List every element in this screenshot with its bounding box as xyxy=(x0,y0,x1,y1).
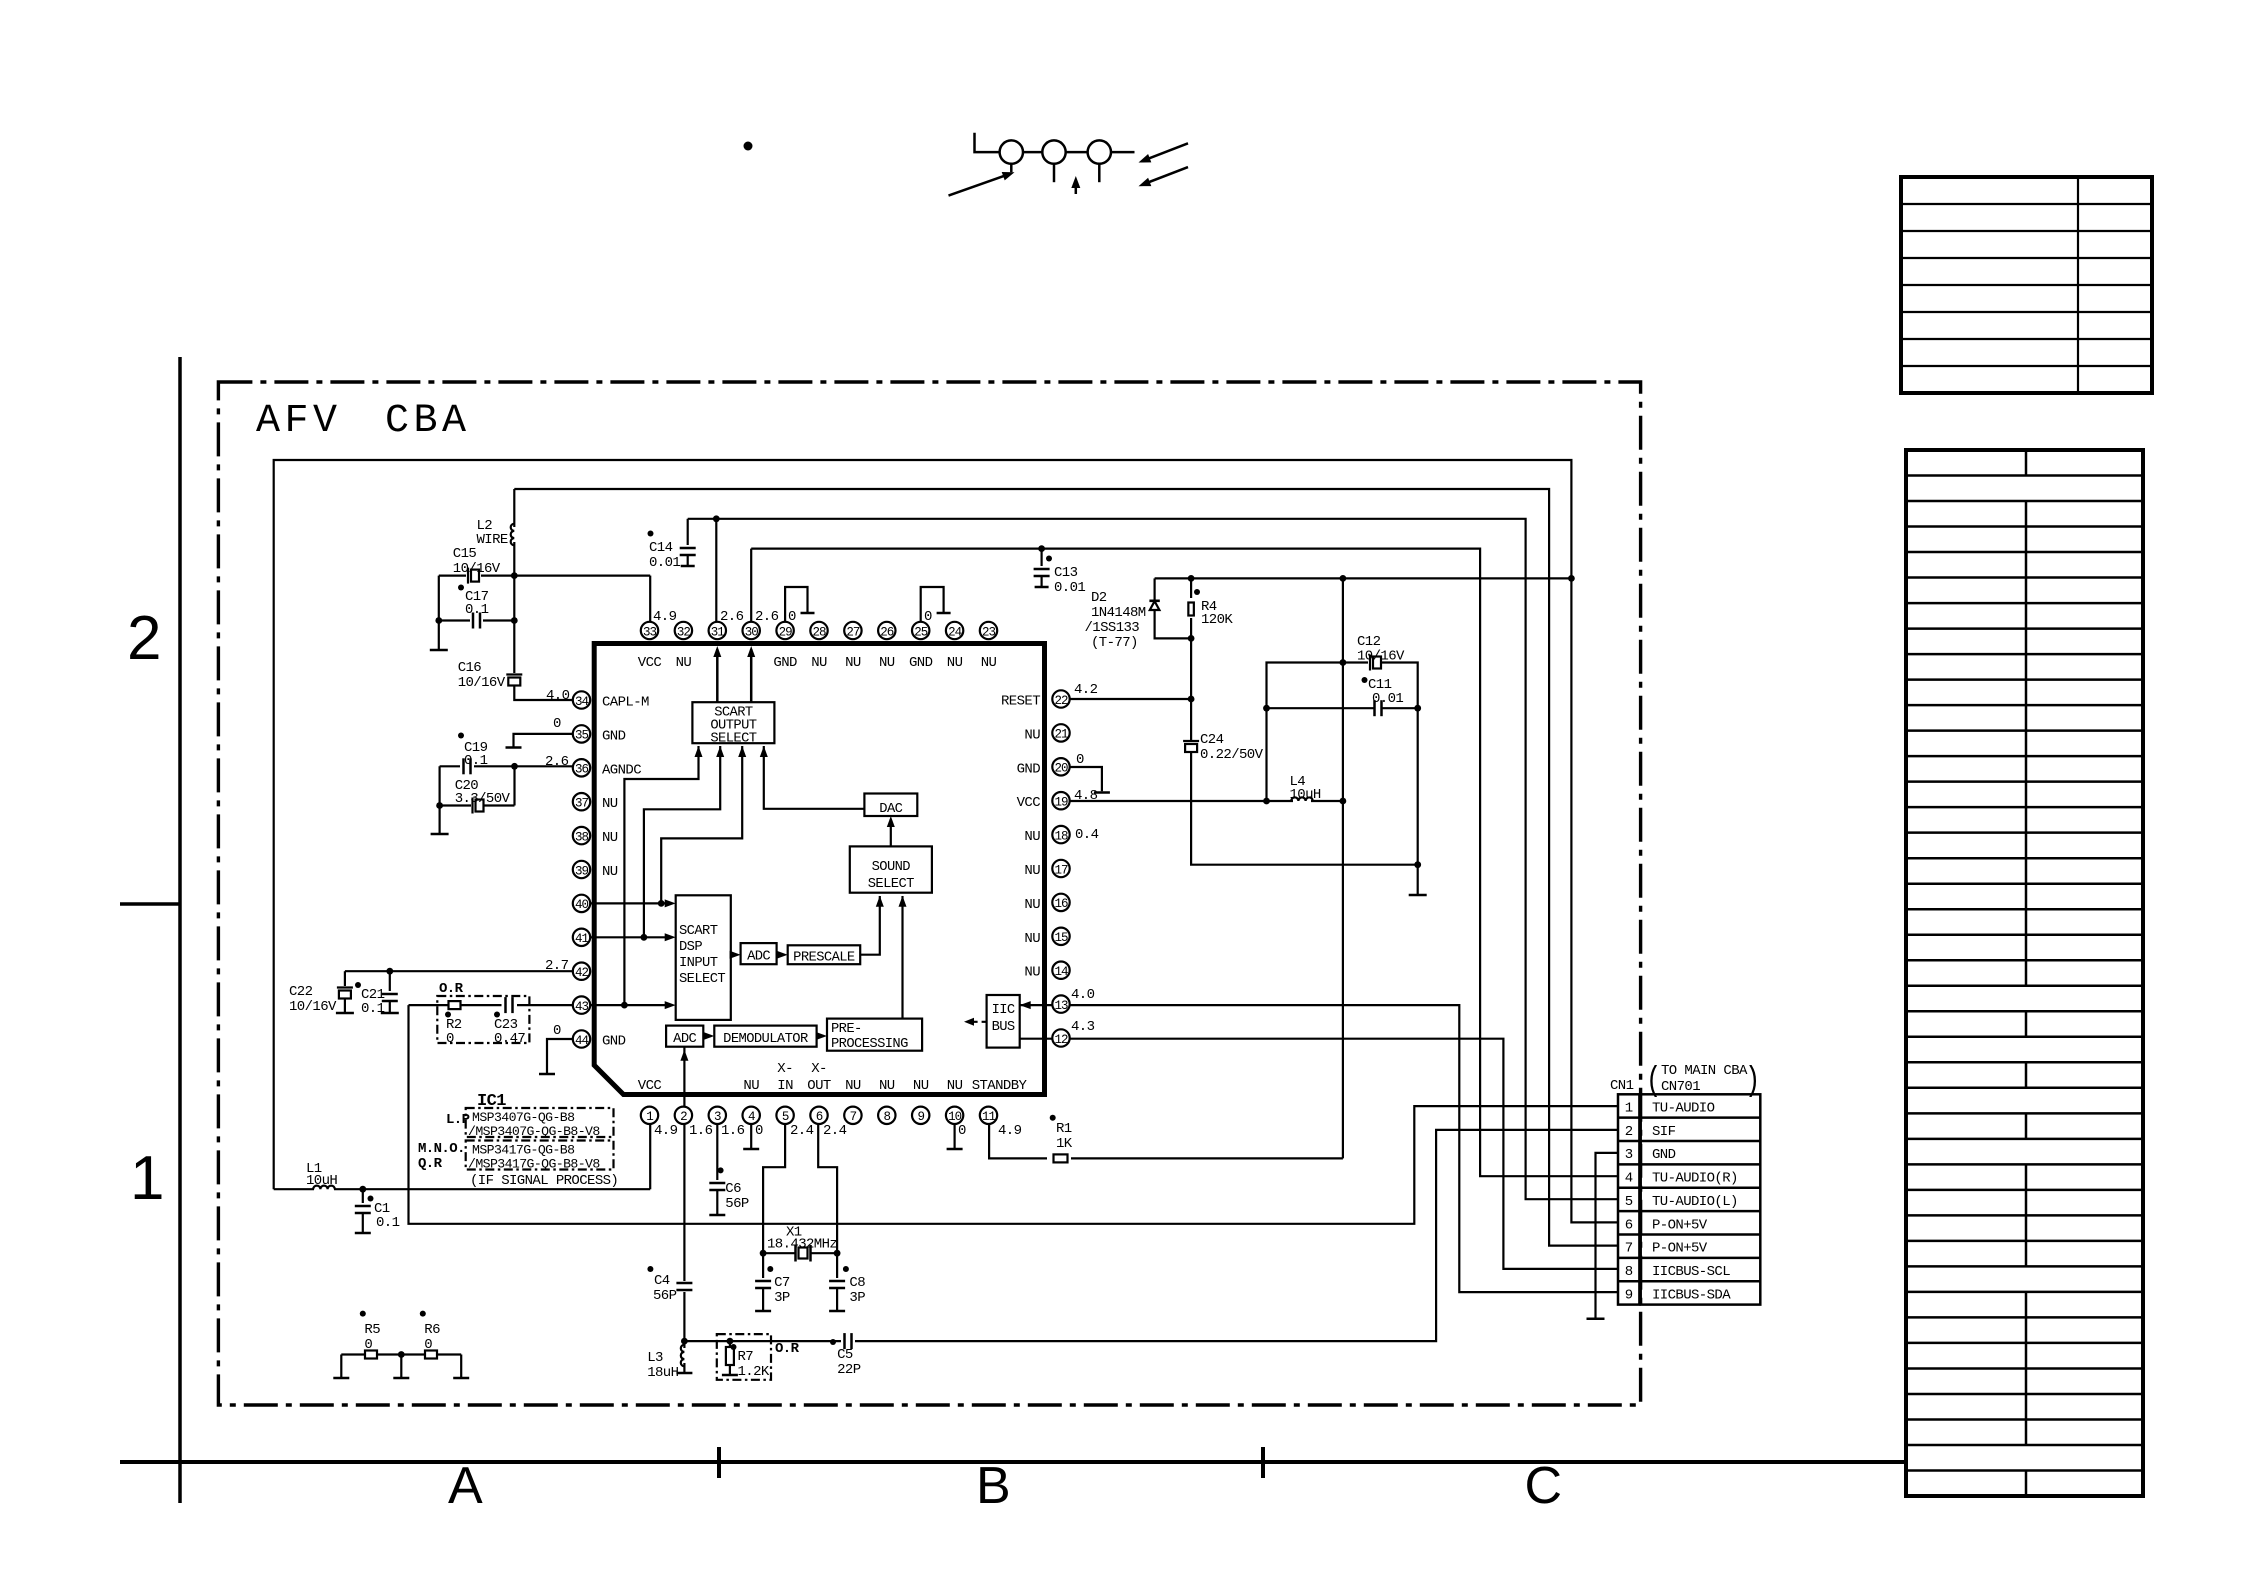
wire SOUND SELECT to DAC arrow xyxy=(890,819,892,846)
node L3 top xyxy=(681,1338,688,1345)
inductor L3 18uH xyxy=(683,1341,685,1348)
pin 30 xyxy=(743,622,760,639)
svg-text:3: 3 xyxy=(1625,1147,1633,1163)
svg-text:31: 31 xyxy=(711,625,725,639)
pin 37 xyxy=(573,793,590,810)
svg-text:AGNDC: AGNDC xyxy=(602,762,641,778)
svg-text:0: 0 xyxy=(553,716,561,732)
svg-text:10/16V: 10/16V xyxy=(458,675,506,691)
svg-text:0: 0 xyxy=(553,1023,561,1039)
capacitor C7 3P xyxy=(762,1253,764,1278)
variant dash-dot box R7 xyxy=(717,1334,771,1380)
svg-text:X-: X- xyxy=(811,1061,827,1077)
block SOUND SELECT xyxy=(850,846,932,892)
wire pin41 to SCART DSP xyxy=(590,936,672,938)
pin 8 xyxy=(878,1107,895,1124)
svg-text:C15: C15 xyxy=(453,546,477,562)
svg-text:AFV: AFV xyxy=(256,399,342,444)
resistor R5 0 xyxy=(341,1353,365,1355)
svg-text:30: 30 xyxy=(745,625,759,639)
svg-text:1: 1 xyxy=(1625,1100,1633,1116)
svg-text:4.9: 4.9 xyxy=(654,1123,678,1139)
diode D2 1N4148M xyxy=(1153,578,1155,600)
frame zone tick left xyxy=(120,902,180,906)
svg-text:1: 1 xyxy=(646,1110,653,1124)
wire pin30 to SCART OUTPUT SELECT xyxy=(750,649,753,702)
svg-text:1.6: 1.6 xyxy=(689,1123,713,1139)
svg-text:0: 0 xyxy=(755,1123,763,1139)
svg-text:1: 1 xyxy=(130,1144,164,1213)
node C17 left xyxy=(435,617,442,624)
capacitor C22 10/16V xyxy=(344,971,346,986)
svg-text:39: 39 xyxy=(575,864,589,878)
legend ne arrow xyxy=(949,174,1011,196)
svg-text:42: 42 xyxy=(575,966,589,980)
svg-text:NU: NU xyxy=(845,655,861,671)
pin 26 xyxy=(878,622,895,639)
svg-text:41: 41 xyxy=(575,932,589,946)
svg-text:4.3: 4.3 xyxy=(1071,1019,1095,1035)
svg-text:NU: NU xyxy=(1024,727,1040,743)
svg-text:0: 0 xyxy=(958,1123,966,1139)
pin 27 xyxy=(844,622,861,639)
wire pin42 net xyxy=(345,970,573,972)
legend left arrow 1 xyxy=(1143,143,1188,160)
capacitor C4 56P xyxy=(676,1282,692,1285)
pin 18 xyxy=(1052,826,1069,843)
pin 25 xyxy=(912,622,929,639)
svg-text:10uH: 10uH xyxy=(306,1173,337,1189)
svg-text:37: 37 xyxy=(575,797,589,811)
svg-text:NU: NU xyxy=(1024,931,1040,947)
svg-text:R5: R5 xyxy=(364,1322,380,1338)
svg-text:A: A xyxy=(448,1457,483,1515)
inductor L2 WIRE xyxy=(513,489,515,527)
svg-text:C4: C4 xyxy=(654,1273,670,1289)
svg-text:7: 7 xyxy=(850,1110,857,1124)
svg-text:SCART: SCART xyxy=(679,924,718,939)
wire pin4 GND stub xyxy=(750,1124,752,1148)
svg-text:D2: D2 xyxy=(1091,590,1107,606)
svg-text:2: 2 xyxy=(127,604,161,673)
svg-text:1N4148M: 1N4148M xyxy=(1091,605,1146,621)
arrow ADC to DEMODULATOR xyxy=(703,1035,711,1037)
wire C12 loop xyxy=(1267,663,1369,802)
wire pin40 net to SCART OUTPUT SELECT xyxy=(661,746,742,903)
wire pin2 vertical through ADC xyxy=(683,1047,685,1281)
pin 42 xyxy=(573,963,590,980)
svg-text:5: 5 xyxy=(1625,1194,1633,1210)
svg-text:20: 20 xyxy=(1054,762,1068,776)
svg-text:GND: GND xyxy=(602,728,626,744)
svg-text:C24: C24 xyxy=(1200,732,1224,748)
pin 13 xyxy=(1052,995,1069,1012)
svg-text:C8: C8 xyxy=(849,1275,865,1291)
wire pin43 net to SCART OUTPUT SELECT xyxy=(624,746,698,1005)
svg-text:4.9: 4.9 xyxy=(998,1123,1022,1139)
svg-text:C14: C14 xyxy=(649,540,673,556)
pin 38 xyxy=(573,827,590,844)
node pin31 bus junction xyxy=(713,515,720,522)
svg-text:120K: 120K xyxy=(1201,612,1233,628)
svg-text:0: 0 xyxy=(924,609,932,625)
connector CN1 xyxy=(1618,1094,1639,1304)
svg-text:9: 9 xyxy=(917,1110,924,1124)
svg-text:VCC: VCC xyxy=(1017,795,1041,811)
svg-text:NU: NU xyxy=(845,1078,861,1094)
wire pin41 net to SCART OUTPUT SELECT xyxy=(644,746,720,937)
svg-text:R6: R6 xyxy=(424,1322,440,1338)
wire pin13 to CN1 pin9 xyxy=(1020,1005,1618,1292)
node D2 R4 junction xyxy=(1188,635,1195,642)
svg-text:43: 43 xyxy=(575,1000,589,1014)
svg-text:DSP: DSP xyxy=(679,940,702,955)
svg-text:NU: NU xyxy=(879,1078,895,1094)
svg-text:/MSP3407G-QG-B8-V8: /MSP3407G-QG-B8-V8 xyxy=(468,1124,600,1139)
capacitor C11 0.01 xyxy=(1267,707,1375,709)
svg-text:TU-AUDIO: TU-AUDIO xyxy=(1652,1100,1715,1116)
pin 21 xyxy=(1052,724,1069,741)
legend circle 1 xyxy=(1000,140,1023,163)
svg-text:L3: L3 xyxy=(647,1350,663,1366)
capacitor C12 10/16V xyxy=(1369,655,1371,671)
node C11 right xyxy=(1414,705,1421,712)
svg-text:2.6: 2.6 xyxy=(755,609,779,625)
svg-text:ADC: ADC xyxy=(673,1032,696,1047)
svg-text:INPUT: INPUT xyxy=(679,956,718,971)
IC1 part box MSP3417G xyxy=(466,1141,614,1170)
svg-text:CBA: CBA xyxy=(385,399,471,444)
svg-text:ADC: ADC xyxy=(747,950,770,965)
pin 41 xyxy=(573,929,590,946)
svg-text:0.01: 0.01 xyxy=(1054,580,1085,596)
svg-text:SIF: SIF xyxy=(1652,1124,1676,1140)
svg-text:P-ON+5V: P-ON+5V xyxy=(1652,1217,1708,1233)
svg-text:17: 17 xyxy=(1054,863,1068,877)
wire L2 top bus to CN1 pin7 xyxy=(514,489,1618,1246)
svg-text:C13: C13 xyxy=(1054,565,1078,581)
svg-text:C5: C5 xyxy=(837,1347,853,1363)
wire SCART OUTPUT SELECT to DAC xyxy=(764,746,865,809)
arrow pin13 into IIC BUS xyxy=(1020,1001,1031,1009)
wire pin35 GND stub xyxy=(514,734,574,747)
svg-text:4.0: 4.0 xyxy=(1071,987,1095,1003)
block DEMODULATOR xyxy=(714,1026,816,1047)
svg-text:33: 33 xyxy=(643,625,657,639)
svg-text:/1SS133: /1SS133 xyxy=(1085,620,1140,636)
svg-text:SELECT: SELECT xyxy=(679,972,725,987)
wire SIF net L3 R7 C5 to CN1 pin2 xyxy=(684,1340,841,1342)
svg-text:10/16V: 10/16V xyxy=(1357,649,1405,665)
svg-text:8: 8 xyxy=(1625,1264,1633,1280)
block PRESCALE xyxy=(788,945,861,964)
block ADC upper xyxy=(741,943,777,964)
svg-text:10/16V: 10/16V xyxy=(289,999,337,1015)
svg-text:44: 44 xyxy=(575,1034,589,1048)
svg-text:56P: 56P xyxy=(653,1288,677,1304)
wire pin20 GND stub xyxy=(1070,767,1102,791)
pin 5 xyxy=(776,1107,793,1124)
svg-text:10/16V: 10/16V xyxy=(453,561,501,577)
svg-text:NU: NU xyxy=(602,830,618,846)
svg-text:C6: C6 xyxy=(725,1181,741,1197)
svg-text:GND: GND xyxy=(1652,1147,1676,1163)
block SCART OUTPUT SELECT xyxy=(692,702,774,743)
wire pin43 to SCART DSP xyxy=(590,1004,672,1006)
IC U1 MSP34x7G body outline xyxy=(594,644,1044,1095)
crystal X1 18.432MHz xyxy=(763,1252,795,1254)
svg-text:DEMODULATOR: DEMODULATOR xyxy=(723,1032,808,1047)
svg-text:34: 34 xyxy=(575,695,589,709)
block PRE-PROCESSING xyxy=(827,1019,922,1051)
node standby bus VCC vertical xyxy=(1568,575,1575,582)
svg-text:MSP3407G-QG-B8: MSP3407G-QG-B8 xyxy=(472,1110,575,1125)
svg-text:0.1: 0.1 xyxy=(465,602,489,618)
svg-text:3: 3 xyxy=(714,1110,721,1124)
svg-text:0: 0 xyxy=(1076,752,1084,768)
variant dash-dot box R2 C23 xyxy=(437,996,529,1043)
wire PRESCALE to SOUND SELECT xyxy=(860,896,880,955)
wire pin3 to C6 xyxy=(716,1124,718,1180)
svg-text:15: 15 xyxy=(1054,931,1068,945)
wire pin11 standby to R1 xyxy=(989,1124,1047,1158)
svg-text:56P: 56P xyxy=(725,1196,749,1212)
svg-text:22P: 22P xyxy=(837,1362,861,1378)
svg-text:PRESCALE: PRESCALE xyxy=(793,951,855,966)
svg-text:4.8: 4.8 xyxy=(1074,788,1098,804)
resistor R6 0 xyxy=(377,1353,426,1355)
pin 19 xyxy=(1052,792,1069,809)
legend stub 1 xyxy=(1010,164,1013,172)
resistor R1 1K xyxy=(1054,1154,1068,1162)
svg-text:CN701: CN701 xyxy=(1661,1079,1700,1095)
ground C12 right xyxy=(1409,894,1427,897)
svg-text:2: 2 xyxy=(1625,1124,1633,1140)
svg-text:RESET: RESET xyxy=(1001,694,1040,710)
svg-text:NU: NU xyxy=(602,796,618,812)
svg-text:CAPL-M: CAPL-M xyxy=(602,695,649,711)
svg-text:(: ( xyxy=(1646,1063,1661,1101)
capacitor C21 0.1 xyxy=(389,971,391,991)
svg-text:C16: C16 xyxy=(458,660,482,676)
frame bottom tick A-B xyxy=(717,1447,721,1478)
node L4 right xyxy=(1340,798,1347,805)
svg-text:8: 8 xyxy=(884,1110,891,1124)
capacitor C17 0.1 xyxy=(439,619,470,621)
svg-text:2.6: 2.6 xyxy=(545,754,569,770)
wire pin33 drop xyxy=(649,576,651,626)
AFV CBA board dash-dot border xyxy=(218,382,1640,1405)
svg-text:IIC: IIC xyxy=(992,1003,1015,1018)
wire pin12 to CN1 pin8 xyxy=(1020,1039,1618,1269)
capacitor C20 3.3/50V xyxy=(439,766,441,833)
svg-text:4: 4 xyxy=(1625,1171,1633,1187)
svg-text:28: 28 xyxy=(812,625,826,639)
pin 10 xyxy=(946,1107,963,1124)
pin 20 xyxy=(1052,758,1069,775)
legend stub 3 xyxy=(1098,164,1101,182)
svg-text:0.1: 0.1 xyxy=(464,753,488,769)
wire pin43 left net xyxy=(517,1004,573,1006)
svg-text:NU: NU xyxy=(1024,965,1040,981)
pin 3 xyxy=(709,1107,726,1124)
svg-text:(IF SIGNAL PROCESS): (IF SIGNAL PROCESS) xyxy=(470,1173,618,1189)
svg-text:TU-AUDIO(R): TU-AUDIO(R) xyxy=(1652,1171,1738,1187)
ground R5 left xyxy=(340,1355,342,1378)
block DAC xyxy=(864,794,917,817)
capacitor C8 3P xyxy=(836,1253,838,1278)
resistor R7 1.2K xyxy=(729,1341,731,1347)
wire pin22 RESET to R4 net xyxy=(1070,698,1192,700)
svg-text:IICBUS-SDA: IICBUS-SDA xyxy=(1652,1287,1731,1303)
svg-text:BUS: BUS xyxy=(992,1020,1015,1035)
revision table top-right xyxy=(1901,177,2152,393)
block SCART DSP INPUT SELECT xyxy=(676,895,731,1020)
pin 15 xyxy=(1052,928,1069,945)
svg-text:4: 4 xyxy=(748,1110,755,1124)
svg-text:0.1: 0.1 xyxy=(361,1001,385,1017)
svg-text:): ) xyxy=(1745,1063,1760,1101)
arrow ADC to PRESCALE xyxy=(777,954,784,956)
capacitor C15 10/16V xyxy=(439,574,466,576)
wire pin6 to X1 xyxy=(818,1124,837,1253)
arrow DEMODULATOR to PRE-PROCESSING xyxy=(817,1035,824,1037)
capacitor C19 0.1 xyxy=(440,765,460,767)
node C17 right xyxy=(511,617,518,624)
wire pin30 drop xyxy=(750,549,752,626)
svg-text:14: 14 xyxy=(1054,965,1068,979)
svg-text:M.N.O.: M.N.O. xyxy=(418,1141,465,1157)
svg-text:19: 19 xyxy=(1054,796,1068,810)
pin 39 xyxy=(573,861,590,878)
svg-text:0.1: 0.1 xyxy=(376,1215,400,1231)
svg-text:10uH: 10uH xyxy=(1290,787,1321,803)
pin 29 xyxy=(776,622,793,639)
svg-text:18: 18 xyxy=(1054,829,1068,843)
svg-text:12: 12 xyxy=(1054,1033,1068,1047)
ground R5 R6 mid xyxy=(400,1355,402,1378)
pin 43 xyxy=(573,996,590,1013)
wire pin19 VCC to L4 xyxy=(1070,800,1294,802)
svg-text:3P: 3P xyxy=(849,1290,865,1306)
inductor L1 10uH xyxy=(274,1188,314,1190)
pin 2 xyxy=(675,1107,692,1124)
resistor R2 0 xyxy=(449,1001,461,1009)
node L1 C1 junction xyxy=(359,1186,366,1193)
svg-text:5: 5 xyxy=(782,1110,789,1124)
svg-text:/MSP3417G-QG-B8-V8: /MSP3417G-QG-B8-V8 xyxy=(468,1157,600,1172)
node C11 left xyxy=(1263,705,1270,712)
svg-text:21: 21 xyxy=(1054,728,1068,742)
capacitor C1 0.1 xyxy=(362,1189,364,1203)
pin 6 xyxy=(810,1107,827,1124)
pin 44 xyxy=(573,1030,590,1047)
svg-text:O.R: O.R xyxy=(439,981,464,997)
svg-text:R7: R7 xyxy=(738,1349,754,1365)
svg-text:1.2K: 1.2K xyxy=(738,1364,770,1380)
pin 28 xyxy=(810,622,827,639)
svg-text:4.2: 4.2 xyxy=(1074,682,1098,698)
svg-text:SOUND: SOUND xyxy=(872,860,911,875)
svg-text:P-ON+5V: P-ON+5V xyxy=(1652,1241,1708,1257)
svg-text:R1: R1 xyxy=(1056,1121,1072,1137)
svg-text:DAC: DAC xyxy=(879,802,902,817)
svg-text:NU: NU xyxy=(602,864,618,880)
pin 12 xyxy=(1052,1029,1069,1046)
frame bottom ruler line xyxy=(120,1460,1908,1464)
capacitor C5 22P xyxy=(843,1333,846,1349)
block IIC BUS xyxy=(987,995,1020,1048)
svg-text:2: 2 xyxy=(680,1110,687,1124)
svg-text:IN: IN xyxy=(777,1078,793,1094)
svg-text:WIRE: WIRE xyxy=(477,532,508,548)
capacitor C14 xyxy=(687,519,689,545)
svg-text:GND: GND xyxy=(602,1034,626,1050)
svg-text:0.22/50V: 0.22/50V xyxy=(1200,747,1264,763)
pin 14 xyxy=(1052,962,1069,979)
pin 32 xyxy=(675,622,692,639)
svg-text:0.47: 0.47 xyxy=(494,1031,525,1047)
wire standby vertical xyxy=(1342,578,1344,1158)
wire pin30 bus to CN1 pin4 xyxy=(751,549,1618,1177)
svg-text:NU: NU xyxy=(1024,897,1040,913)
svg-text:0.01: 0.01 xyxy=(1372,691,1403,707)
svg-text:GND: GND xyxy=(909,655,933,671)
svg-text:NU: NU xyxy=(743,1078,759,1094)
svg-text:1K: 1K xyxy=(1056,1136,1073,1152)
svg-text:NU: NU xyxy=(811,655,827,671)
svg-text:PROCESSING: PROCESSING xyxy=(831,1037,908,1052)
legend up arrow xyxy=(1075,180,1078,194)
wire pin31 drop xyxy=(715,519,717,626)
svg-text:SELECT: SELECT xyxy=(710,732,756,747)
node C24 gnd wire junction xyxy=(1414,861,1421,868)
svg-text:0: 0 xyxy=(364,1337,372,1353)
resistor R4 120K xyxy=(1190,578,1192,598)
svg-text:6: 6 xyxy=(1625,1217,1633,1233)
svg-text:9: 9 xyxy=(1625,1287,1633,1303)
svg-text:O.R: O.R xyxy=(775,1341,800,1357)
svg-text:2.7: 2.7 xyxy=(545,958,569,974)
node X1 left xyxy=(760,1250,767,1257)
pin 40 xyxy=(573,895,590,912)
svg-text:35: 35 xyxy=(575,729,589,743)
svg-text:C: C xyxy=(1525,1457,1562,1515)
legend stub 2 xyxy=(1053,164,1056,182)
pin 31 xyxy=(709,622,726,639)
node C15 L2 junction xyxy=(511,572,518,579)
svg-text:0: 0 xyxy=(788,609,796,625)
capacitor C13 xyxy=(1040,549,1042,566)
svg-text:(T-77): (T-77) xyxy=(1091,635,1138,651)
svg-text:TO MAIN CBA: TO MAIN CBA xyxy=(1661,1063,1748,1079)
pin 1 xyxy=(641,1107,658,1124)
node standby bus R4 xyxy=(1188,575,1195,582)
svg-text:6: 6 xyxy=(816,1110,823,1124)
svg-text:0: 0 xyxy=(424,1337,432,1353)
wire pin25 stub hook xyxy=(921,587,944,626)
svg-text:16: 16 xyxy=(1054,897,1068,911)
legend link 1-2 xyxy=(1023,151,1042,154)
wire C15 C17 left vertical to ground xyxy=(438,576,440,649)
node X1 right xyxy=(834,1250,841,1257)
pin 11 xyxy=(980,1107,997,1124)
svg-text:13: 13 xyxy=(1054,999,1068,1013)
frame left border line xyxy=(178,357,182,1503)
legend circle 3 xyxy=(1088,140,1111,163)
wire pin29 stub hook xyxy=(785,587,807,626)
svg-text:23: 23 xyxy=(982,625,996,639)
